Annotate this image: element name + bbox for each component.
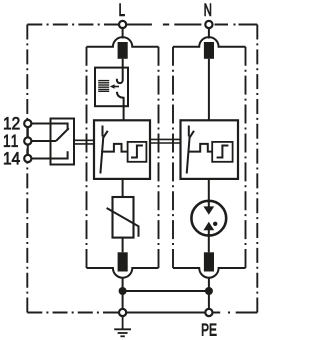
wire: terminal 12 to contact box <box>31 123 51 125</box>
wire: L junction down to earth terminal <box>122 291 124 309</box>
wire: solid link between terminals 12-11-14 on border <box>27 124 29 159</box>
ground symbol <box>114 317 131 337</box>
terminal 14 (circle on border) <box>24 155 31 162</box>
compartment top edge L pole with plug-contact bump <box>87 37 159 47</box>
terminal 12 (circle on border) <box>24 120 31 127</box>
wire: trigger connection square-wave in F2 <box>188 144 213 152</box>
wire: terminal L down to plug bump <box>122 28 124 39</box>
earth terminal (circle on border) <box>119 309 126 316</box>
discharge tube lower electrode arrow (up) <box>203 222 214 230</box>
discharge tube upper electrode arrow (down) <box>203 206 214 214</box>
wire: disconnect contact lower lead with curl <box>117 92 124 121</box>
junction dot N pole PE bus <box>205 287 213 295</box>
wire: trigger connection square-wave in F1 <box>101 144 127 152</box>
label terminal 11 <box>4 135 18 147</box>
wire: terminal N down to plug bump <box>208 28 210 39</box>
spark gap box F1 (L pole, triggered spark gap) <box>94 120 150 179</box>
wire: F1 to varistor <box>122 179 124 197</box>
wire: F2 down into discharge tube <box>208 179 210 208</box>
plug contact (black) top of L pole <box>118 42 128 59</box>
step-function glyph in F2 trigger unit <box>217 146 229 158</box>
plug contact (black) bottom of L pole <box>118 252 128 271</box>
actuation arrow pointing at thermal element <box>114 86 119 88</box>
label N <box>205 4 211 16</box>
wire: N junction down to PE terminal <box>208 291 210 309</box>
enclosure border (dash-dot device outline) <box>27 25 257 313</box>
junction dot L pole PE bus <box>119 287 127 295</box>
thermal element (striped block) inside disconnector <box>98 81 109 92</box>
spark gap (gas discharge tube) circle N pole <box>191 201 226 236</box>
varistor diagonal stroke <box>107 208 139 237</box>
spark gap switch symbol in F2: blade <box>187 137 190 174</box>
spark gap switch symbol in F2: fixed contact stub <box>188 126 190 137</box>
label terminal 12 <box>4 117 19 129</box>
plug contact (black) top of N pole <box>204 42 214 59</box>
wire: L pole bottom bump to junction <box>122 278 124 291</box>
wire: varistor to bottom plug contact <box>122 238 124 253</box>
compartment bottom edge L pole with plug-contact bump <box>87 268 159 278</box>
signalling link double line: contact box to F1 <box>74 140 94 144</box>
wire: PE bus solid segment on bottom border between earth and PE terminals <box>123 312 209 314</box>
spark gap switch symbol in F2: tick stroke <box>189 131 194 138</box>
contact 11 common lead inside box <box>51 140 57 142</box>
terminal N (circle on border) <box>205 21 212 28</box>
wire: PE bus junction to junction <box>123 290 209 292</box>
label terminal 14 <box>4 152 20 164</box>
spark gap switch symbol in F1: tick stroke <box>103 131 108 138</box>
terminal PE (circle on border) <box>205 309 212 316</box>
wire: terminal 14 to contact box <box>31 158 51 160</box>
compartment bottom edge N pole with plug-contact bump <box>173 268 246 278</box>
trigger unit box in F2 <box>212 142 232 162</box>
wire: discharge tube to bottom plug contact <box>208 230 210 253</box>
trigger unit box in F1 <box>128 142 147 162</box>
compartment border L pole (dash-dot sides) <box>87 47 159 268</box>
wire: N pole plug contact down to spark gap box <box>208 59 210 121</box>
wire: disconnect contact upper lead with curl <box>117 59 123 83</box>
label PE <box>202 324 216 336</box>
compartment top edge N pole with plug-contact bump <box>173 37 246 47</box>
spark gap switch symbol in F1: blade <box>100 137 103 174</box>
wire: N pole bottom bump to junction <box>208 278 210 291</box>
thermal disconnector box U3 (L pole monitoring device) <box>95 68 128 107</box>
terminal L (circle on border) <box>119 21 126 28</box>
wire: terminal 11 to contact box <box>31 140 51 142</box>
terminal 11 (circle on border) <box>24 137 31 144</box>
discharge tube gas dot <box>213 222 217 226</box>
remote signalling changeover contact box S1 <box>51 119 75 165</box>
spark gap switch symbol in F1: fixed contact stub <box>102 126 104 137</box>
label L <box>120 4 125 16</box>
signalling link double line: F1 to F2 <box>150 139 181 143</box>
compartment border N pole (dash-dot sides) <box>173 47 246 268</box>
changeover blade 11-12 <box>56 128 69 141</box>
plug contact (black) bottom of N pole <box>204 252 214 271</box>
varistor MOV (L pole) body <box>113 197 134 238</box>
contact 14 lead inside box with stub <box>51 151 68 158</box>
contact 12 lead inside box with stub <box>51 124 68 131</box>
step-function glyph in F1 trigger unit <box>131 146 143 158</box>
spark gap box F2 (N pole, triggered spark gap) <box>181 120 239 179</box>
